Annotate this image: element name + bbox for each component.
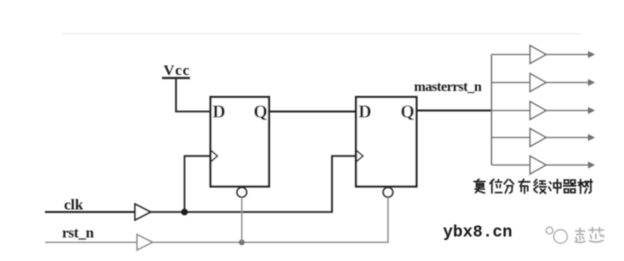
svg-text:ybx8.cn: ybx8.cn <box>443 223 512 242</box>
svg-text:Q: Q <box>254 102 268 122</box>
reset bubble U2 <box>383 188 393 198</box>
buffer U5 arrowhead <box>588 107 595 114</box>
buffer U3 arrowhead <box>588 51 595 58</box>
buffer U5 output wire <box>546 110 589 112</box>
glyph 缓 <box>534 180 546 194</box>
junction clk / U1 clock <box>181 209 188 216</box>
buffer U5 <box>530 102 546 120</box>
buffer U7 <box>530 156 546 174</box>
flip-flop U1 body <box>211 97 270 187</box>
wire clk input <box>45 211 135 213</box>
buffer U7 arrowhead <box>588 162 595 169</box>
buffer U3 input wire <box>492 54 531 56</box>
buffer U7 output wire <box>546 164 589 166</box>
faint scan artifact band <box>62 33 582 35</box>
svg-text:D: D <box>359 102 372 122</box>
svg-text:rst_n: rst_n <box>62 226 95 242</box>
glyph 位 <box>490 179 502 193</box>
glyph 布 <box>519 179 530 193</box>
buffer U4 output wire <box>546 82 589 84</box>
wire clk to U1 clock <box>185 156 211 212</box>
logo circles 志芯 <box>546 227 567 243</box>
wire masterrst_n (Q2 to buffer tree trunk) <box>417 110 493 112</box>
clock chevron U2 <box>356 150 363 162</box>
buffer U4 arrowhead <box>588 79 595 86</box>
reset bubble U1 <box>237 188 247 198</box>
logo text 志芯 (drawn glyphs) <box>575 228 604 243</box>
wire rst_n to U1 reset bubble <box>241 197 243 242</box>
buffer U6 <box>530 129 546 147</box>
buffer U4 <box>530 74 546 92</box>
buffer tree trunk wire <box>491 55 493 166</box>
buffer U5 input wire <box>492 110 531 112</box>
glyph 分 <box>504 180 513 193</box>
glyph 器 <box>564 180 576 193</box>
buffer U6 input wire <box>492 137 531 139</box>
buffer B2 (rst_n input buffer) <box>137 235 153 251</box>
glyph 志 <box>575 228 585 242</box>
buffer U6 arrowhead <box>588 134 595 141</box>
junction rst_n / U1 reset <box>239 239 245 245</box>
clock chevron U1 <box>211 150 218 162</box>
wire clk from buffer to U2 clock <box>151 156 357 212</box>
buffer U3 output wire <box>546 54 589 56</box>
glyph 芯 <box>589 228 604 243</box>
wire rst_n from buffer to U2 reset <box>153 197 389 242</box>
svg-text:masterrst_n: masterrst_n <box>414 80 482 95</box>
buffer U3 <box>530 46 546 64</box>
svg-text:D: D <box>213 102 226 122</box>
buffer U6 output wire <box>546 137 589 139</box>
power symbol Vcc bar <box>162 77 190 79</box>
svg-text:Q: Q <box>401 102 415 122</box>
glyph 树 <box>578 179 592 193</box>
glyph 冲 <box>549 179 561 193</box>
glyph 复 <box>474 179 485 193</box>
wire Q1 to D2 <box>269 111 356 113</box>
wire Vcc stem <box>176 78 211 112</box>
buffer B1 (clk input buffer) <box>135 204 151 220</box>
buffer U4 input wire <box>492 82 531 84</box>
wire rst_n input <box>45 241 137 243</box>
flip-flop U2 body <box>356 97 417 187</box>
svg-text:Vcc: Vcc <box>164 63 191 79</box>
label 复位分布缓冲器树 (buffer tree caption, drawn glyphs) <box>474 179 592 193</box>
buffer U7 input wire <box>492 164 531 166</box>
